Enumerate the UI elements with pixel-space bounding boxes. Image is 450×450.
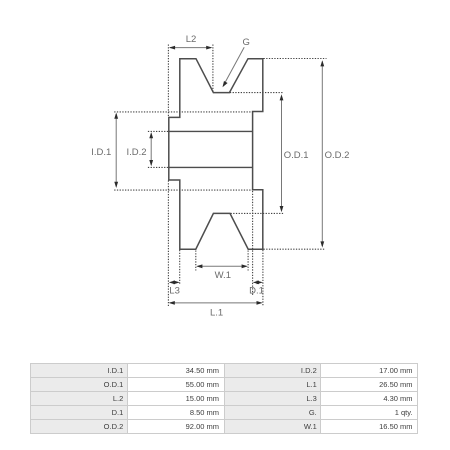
G arrowhead [223,81,228,87]
dim ID2 line [150,134,152,165]
extension line W1 right [247,251,249,271]
svg-text:O.D.1: O.D.1 [284,150,309,161]
svg-text:W.1: W.1 [215,270,231,281]
extension line left x168 lower [167,181,169,307]
bore line bottom [169,166,253,168]
extension line left x168 upper [167,45,169,118]
L1 arrowheads [169,301,175,305]
bore line top [169,130,253,132]
dotted ID2 top [148,130,169,132]
svg-text:L.1: L.1 [210,308,223,319]
dotted ID1 bottom [114,189,252,191]
dimensions table [30,363,418,434]
dim ID1 line [115,114,117,187]
svg-text:G: G [243,37,250,48]
dim OD1 line [281,96,283,211]
OD2 arrowheads [320,60,324,66]
dotted OD1 bottom [231,212,284,214]
L2 arrowheads [169,46,175,50]
pulley outline [169,59,263,250]
dim OD2 line [321,62,323,247]
dim W1 line [198,265,247,267]
G leader line [223,47,244,86]
L3 arrowheads [169,281,175,285]
dim L2 line [170,47,211,49]
extension line W1 left [195,251,197,271]
dotted bottom OD2 [264,248,325,250]
dotted groove OD1 top [230,92,283,94]
dotted ID1 top [114,111,254,113]
dotted top OD2 [264,58,327,60]
svg-text:O.D.2: O.D.2 [325,150,350,161]
OD1 arrowheads [280,94,284,100]
dotted ID2 bottom [148,166,169,168]
D1 arrowheads [253,281,259,285]
svg-text:D.1: D.1 [249,285,264,296]
dim L1 line [170,302,262,304]
W1 arrowheads [196,264,202,268]
svg-text:L3: L3 [169,285,180,296]
ID1 arrowheads [114,113,118,119]
extension line D1 left [252,191,254,296]
extension line L3 right [179,250,181,284]
svg-text:L2: L2 [186,34,197,45]
extension line right x262.9 [262,250,264,306]
extension line x212.9 [212,45,214,93]
svg-text:I.D.1: I.D.1 [91,147,111,158]
svg-text:I.D.2: I.D.2 [126,147,146,158]
ID2 arrowheads [149,132,153,138]
